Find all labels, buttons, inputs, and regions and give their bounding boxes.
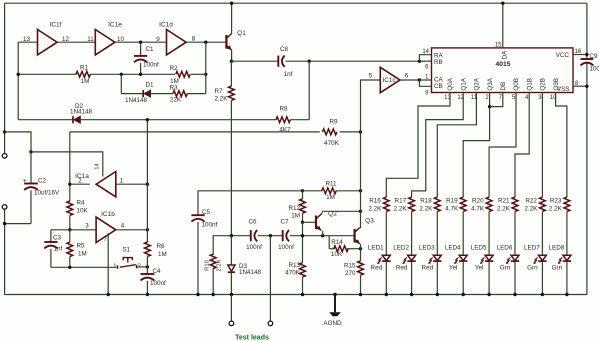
svg-text:IC1a: IC1a bbox=[75, 173, 89, 180]
wire C8 to 4015 RB bbox=[286, 60, 420, 62]
wire R14 right bbox=[347, 248, 360, 250]
wire LED1 to ground bbox=[385, 262, 387, 295]
capacitor C5 bbox=[191, 214, 204, 216]
svg-text:1M: 1M bbox=[81, 78, 90, 85]
svg-text:1N4148: 1N4148 bbox=[125, 97, 148, 104]
wire right rail lower bbox=[586, 63, 588, 295]
LED LED8 Grn bbox=[563, 255, 571, 260]
svg-text:Q1: Q1 bbox=[237, 30, 246, 37]
capacitor C8 bbox=[277, 56, 279, 67]
svg-text:R8: R8 bbox=[279, 106, 288, 113]
wire pin10 Q3B to R23 bbox=[556, 93, 567, 198]
svg-text:DB: DB bbox=[500, 82, 507, 91]
wire row to R11 bbox=[303, 190, 323, 192]
wire RB stub bbox=[419, 60, 431, 62]
wire IC1d to Q1 base bbox=[186, 41, 226, 43]
svg-text:IC1b: IC1b bbox=[101, 211, 115, 218]
node RA RB junction bbox=[418, 60, 421, 63]
wire R7 down to C6 row bbox=[230, 100, 232, 235]
svg-text:DA: DA bbox=[502, 50, 509, 60]
capacitor C1 bbox=[140, 42, 142, 56]
node IC1b output branch bbox=[146, 228, 149, 231]
node R12 top bbox=[301, 189, 304, 192]
node C2 ground branch bbox=[3, 222, 6, 225]
svg-text:R22: R22 bbox=[525, 198, 537, 205]
wire R15 leads bbox=[360, 249, 362, 261]
node IC1c out to CA CB bbox=[418, 78, 421, 81]
wire IC1f input bbox=[18, 41, 37, 43]
wire left lower rail bbox=[4, 209, 6, 294]
wire pin7 DB to Q3A bbox=[490, 93, 503, 107]
LED LED6 Grn bbox=[511, 255, 519, 260]
resistor R16 bbox=[383, 197, 389, 211]
ground AGND symbol bbox=[334, 295, 336, 313]
svg-text:2.2K: 2.2K bbox=[217, 259, 223, 271]
wire input vertical bbox=[17, 42, 19, 120]
wire R8 right bbox=[290, 119, 309, 121]
wire C3-R5 bottom row to S1 bbox=[51, 266, 116, 268]
node Q2 collector on Q3 vertical bbox=[359, 210, 362, 213]
wire LED8 to ground bbox=[566, 262, 568, 295]
wire mid rail R4 to R9 bbox=[70, 131, 320, 133]
resistor R4 bbox=[67, 201, 73, 215]
svg-text:470K: 470K bbox=[324, 140, 340, 147]
wire right rail upper bbox=[586, 3, 588, 59]
svg-text:4: 4 bbox=[121, 222, 125, 229]
svg-text:10uf/16V: 10uf/16V bbox=[34, 189, 60, 196]
resistor R9 bbox=[323, 129, 337, 135]
node IC1a input branch bbox=[146, 183, 149, 186]
svg-text:C1: C1 bbox=[146, 46, 155, 53]
svg-text:R7: R7 bbox=[214, 88, 223, 95]
op-amp IC1c bbox=[380, 67, 400, 92]
LED LED4 Yel bbox=[459, 255, 467, 260]
pin 15 DA stub to VCC rail bbox=[502, 3, 504, 48]
svg-text:2.2K: 2.2K bbox=[497, 205, 511, 212]
node D2 row branch bbox=[146, 118, 149, 121]
wire IC1a output bbox=[70, 183, 90, 185]
svg-text:R12: R12 bbox=[288, 205, 300, 212]
svg-text:LED4: LED4 bbox=[445, 244, 461, 251]
wire supply tap to C2 bbox=[5, 132, 31, 152]
wire pin12 Q1A to R17 bbox=[412, 93, 464, 198]
svg-text:14: 14 bbox=[422, 49, 429, 55]
IC 4015 body bbox=[432, 48, 574, 93]
node R4 bottom IC1b input bbox=[68, 228, 71, 231]
wire R4 top bbox=[69, 132, 71, 201]
node LED4 ground bbox=[462, 293, 465, 296]
svg-text:Yel: Yel bbox=[475, 264, 484, 271]
svg-text:11: 11 bbox=[87, 36, 94, 43]
resistor R13 bbox=[300, 263, 306, 277]
node R1-D1 branch bbox=[120, 73, 123, 76]
terminal circle left bottom bbox=[2, 205, 7, 210]
svg-text:C8: C8 bbox=[280, 46, 289, 53]
svg-text:15: 15 bbox=[495, 43, 502, 49]
resistor R21 bbox=[512, 197, 518, 211]
svg-text:RB: RB bbox=[434, 59, 443, 66]
svg-text:IC1c: IC1c bbox=[383, 77, 396, 84]
resistor R14 bbox=[329, 248, 335, 250]
wire D1 row left bbox=[121, 93, 143, 95]
svg-text:+: + bbox=[23, 177, 27, 184]
svg-text:22K: 22K bbox=[170, 97, 182, 104]
svg-text:2.2K: 2.2K bbox=[549, 205, 563, 212]
svg-text:Red: Red bbox=[396, 264, 408, 271]
node LED7 ground bbox=[541, 293, 544, 296]
svg-text:16: 16 bbox=[575, 49, 582, 55]
wire R14 left lead bbox=[328, 236, 330, 249]
svg-text:C4: C4 bbox=[153, 268, 162, 275]
wire C8 branch down to R8 bbox=[308, 61, 310, 119]
wire R20 to LED5 bbox=[488, 212, 490, 256]
wire pin11 Q2A to R18 bbox=[437, 93, 476, 198]
capacitor C9 bbox=[581, 58, 594, 60]
svg-text:1M: 1M bbox=[291, 212, 300, 219]
svg-text:R17: R17 bbox=[395, 198, 407, 205]
wire S1 pin2 to C4 bbox=[138, 266, 148, 268]
wire R5 leads bbox=[69, 230, 71, 242]
LED LED2 Red bbox=[408, 255, 416, 260]
resistor R22 bbox=[540, 197, 546, 211]
wire C2 bottom to left rail bbox=[5, 223, 31, 225]
svg-text:4.7K: 4.7K bbox=[471, 205, 485, 212]
resistor R20 bbox=[486, 197, 492, 211]
svg-text:LED7: LED7 bbox=[524, 244, 540, 251]
svg-text:R20: R20 bbox=[472, 198, 484, 205]
svg-text:Yel: Yel bbox=[449, 264, 458, 271]
node R9 right on Q3 vertical bbox=[359, 130, 362, 133]
svg-text:100n: 100n bbox=[590, 66, 599, 73]
op-amp IC1d bbox=[167, 30, 187, 55]
wire R10 bottom bbox=[212, 268, 214, 295]
diode D2 bbox=[72, 116, 74, 123]
wire LED2 to ground bbox=[411, 262, 413, 295]
wire pin5 Q0B to R20 bbox=[489, 93, 516, 198]
svg-text:8: 8 bbox=[192, 36, 196, 43]
svg-text:C7: C7 bbox=[280, 219, 289, 226]
node LED2 ground bbox=[410, 293, 413, 296]
node R2 right bbox=[204, 73, 207, 76]
svg-text:R13: R13 bbox=[288, 262, 300, 269]
wire R19 to LED4 bbox=[462, 212, 464, 256]
capacitor C7 bbox=[282, 230, 284, 241]
wire test lead 2 bbox=[269, 236, 271, 321]
node LED6 ground bbox=[513, 293, 516, 296]
svg-text:R10: R10 bbox=[204, 260, 210, 271]
svg-text:5: 5 bbox=[369, 73, 373, 80]
svg-text:1: 1 bbox=[120, 178, 124, 185]
svg-text:R16: R16 bbox=[369, 198, 381, 205]
wire R3 to vertical bbox=[187, 93, 206, 95]
svg-text:R15: R15 bbox=[344, 263, 356, 270]
wire middle column from D2 row bbox=[146, 120, 148, 242]
svg-text:6: 6 bbox=[405, 73, 409, 80]
node R14 on Q3 emitter bbox=[359, 247, 362, 250]
node R10 ground bbox=[212, 293, 215, 296]
capacitor C4 bbox=[146, 267, 148, 274]
svg-text:470K: 470K bbox=[285, 270, 301, 277]
svg-text:C6: C6 bbox=[248, 219, 257, 226]
wire IC1b input row bbox=[51, 229, 96, 231]
wire R16 to LED1 bbox=[385, 212, 387, 256]
node LED8 ground bbox=[565, 293, 568, 296]
wire pin13 Q0A to R16 bbox=[386, 93, 450, 198]
wire pin14 power line bbox=[31, 152, 103, 177]
svg-text:Q0B: Q0B bbox=[513, 78, 520, 91]
node Q3A-DB cascade bbox=[488, 105, 491, 108]
wire C7 to Q3 base bbox=[290, 235, 355, 237]
svg-text:IC1e: IC1e bbox=[108, 22, 122, 29]
capacitor C6 bbox=[250, 230, 252, 241]
node R5 bottom bbox=[68, 266, 71, 269]
op-amp IC1f bbox=[38, 30, 58, 55]
svg-text:4015: 4015 bbox=[495, 61, 510, 68]
wire R13 leads bbox=[302, 222, 304, 262]
wire R12 leads bbox=[302, 191, 304, 199]
svg-text:C5: C5 bbox=[202, 209, 211, 216]
terminal circle left top bbox=[2, 154, 7, 159]
node IC1d output bbox=[204, 41, 207, 44]
wire R2 right bbox=[191, 73, 206, 75]
svg-text:R19: R19 bbox=[446, 198, 458, 205]
capacitor C2 10uf/16V polarized bbox=[30, 152, 32, 184]
svg-text:LED5: LED5 bbox=[471, 244, 487, 251]
svg-text:Q1A: Q1A bbox=[460, 77, 467, 90]
svg-text:LED1: LED1 bbox=[368, 244, 384, 251]
wire IC1d output vertical bbox=[205, 42, 207, 93]
svg-text:R3: R3 bbox=[169, 84, 178, 91]
svg-text:R6: R6 bbox=[157, 243, 166, 250]
svg-text:LED8: LED8 bbox=[549, 244, 565, 251]
svg-text:AGND: AGND bbox=[323, 320, 342, 327]
node C4 ground bbox=[146, 293, 149, 296]
svg-text:Grn: Grn bbox=[527, 264, 538, 271]
wire RA loop bbox=[419, 55, 431, 62]
wire Q3 collector vertical to IC1c input bbox=[361, 80, 381, 228]
svg-text:LED6: LED6 bbox=[497, 244, 513, 251]
svg-text:1M: 1M bbox=[158, 251, 167, 258]
svg-text:S1: S1 bbox=[122, 246, 130, 253]
op-amp IC1b bbox=[96, 217, 116, 242]
resistor R19 bbox=[460, 197, 466, 211]
wire LED5 to ground bbox=[488, 262, 490, 295]
svg-text:2.2K: 2.2K bbox=[368, 205, 382, 212]
node Q2 base tap bbox=[301, 221, 304, 224]
transistor Q1 bbox=[225, 35, 227, 49]
svg-text:R9: R9 bbox=[329, 119, 338, 126]
wire Q1 emitter to R7 bbox=[230, 61, 232, 86]
wire pin2 Q3A to R19 bbox=[463, 93, 489, 198]
node IC1a output bbox=[68, 183, 71, 186]
wire Q3 emitter down bbox=[360, 244, 362, 249]
wire R21 to LED6 bbox=[514, 212, 516, 256]
svg-text:R23: R23 bbox=[550, 198, 562, 205]
node R7 bottom on C6 row bbox=[230, 234, 233, 237]
wire test lead 1 bbox=[230, 295, 232, 322]
svg-text:1N4148: 1N4148 bbox=[70, 109, 93, 116]
svg-text:R18: R18 bbox=[420, 198, 432, 205]
pin 16 VCC stub bbox=[573, 54, 587, 56]
svg-text:LED3: LED3 bbox=[419, 244, 435, 251]
svg-text:Q2A: Q2A bbox=[474, 77, 481, 90]
svg-text:9: 9 bbox=[156, 36, 160, 43]
node LED1 ground bbox=[385, 293, 388, 296]
svg-text:LED2: LED2 bbox=[393, 244, 409, 251]
node D3 ground and test lead 1 bbox=[230, 293, 233, 296]
svg-text:IC1f: IC1f bbox=[50, 22, 62, 29]
node R15 ground bbox=[359, 293, 362, 296]
node R11 right on Q3 vertical bbox=[359, 189, 362, 192]
svg-text:3: 3 bbox=[85, 222, 89, 229]
node R1 left bbox=[17, 73, 20, 76]
svg-text:1nf: 1nf bbox=[54, 246, 63, 253]
svg-text:D1: D1 bbox=[145, 81, 154, 88]
svg-text:2: 2 bbox=[78, 178, 82, 185]
svg-text:4.7K: 4.7K bbox=[445, 205, 459, 212]
resistor R12 bbox=[300, 199, 306, 213]
wire Q2 collector bbox=[321, 211, 360, 214]
resistor R10 bbox=[210, 254, 216, 268]
svg-text:R11: R11 bbox=[325, 180, 337, 187]
svg-text:100nf: 100nf bbox=[202, 221, 218, 228]
svg-text:14: 14 bbox=[94, 163, 100, 170]
op-amp IC1a bbox=[96, 172, 116, 197]
svg-text:Q3A: Q3A bbox=[487, 77, 494, 90]
node IC1b pin7 ground bbox=[107, 293, 110, 296]
node Q1 emitter bbox=[230, 60, 233, 63]
svg-text:IC1d: IC1d bbox=[159, 22, 173, 29]
resistor R5 bbox=[67, 242, 73, 256]
node Q1 collector on rail bbox=[230, 2, 233, 5]
resistor R8 bbox=[276, 117, 290, 123]
wire Q1 emitter to C8 bbox=[231, 60, 278, 62]
svg-text:2.2K: 2.2K bbox=[394, 205, 408, 212]
op-amp IC1e bbox=[95, 30, 115, 55]
wire Q2 base bbox=[303, 221, 317, 223]
wire IC1b pin7 ground bbox=[107, 233, 109, 294]
node C2 top bbox=[29, 150, 32, 153]
wire R17 to LED2 bbox=[411, 212, 413, 256]
node LED3 ground bbox=[436, 293, 439, 296]
resistor R18 bbox=[434, 197, 440, 211]
resistor R3 bbox=[173, 91, 187, 97]
transistor Q2 bbox=[315, 216, 317, 230]
wire R18 to LED3 bbox=[436, 212, 438, 256]
svg-text:1M: 1M bbox=[326, 194, 335, 201]
resistor R11 bbox=[322, 188, 336, 194]
wire IC1c output bbox=[400, 79, 420, 81]
transistor Q3 bbox=[354, 229, 356, 243]
wire LED4 to ground bbox=[462, 262, 464, 295]
svg-text:1: 1 bbox=[113, 263, 116, 269]
wire IC1a input bbox=[116, 183, 148, 185]
wire LED6 to ground bbox=[514, 262, 516, 295]
resistor R1 bbox=[76, 71, 90, 77]
node R13 ground bbox=[301, 293, 304, 296]
wire D2 to R8 bbox=[80, 119, 276, 121]
LED LED3 Red bbox=[433, 255, 441, 260]
svg-text:Q2B: Q2B bbox=[540, 78, 547, 91]
wire C6 row left corner bbox=[213, 236, 251, 255]
svg-text:CB: CB bbox=[434, 83, 443, 90]
svg-text:2.2K: 2.2K bbox=[419, 205, 433, 212]
node LED5 ground bbox=[487, 293, 490, 296]
wire C6 to C7 bbox=[258, 235, 283, 237]
wire R11 right bbox=[336, 190, 361, 192]
svg-text:R4: R4 bbox=[77, 199, 86, 206]
LED LED5 Yel bbox=[485, 255, 493, 260]
svg-text:1nf: 1nf bbox=[284, 71, 293, 78]
wire D1 to R3 bbox=[151, 93, 174, 95]
svg-text:10K: 10K bbox=[331, 251, 343, 258]
svg-text:Grn: Grn bbox=[552, 264, 563, 271]
resistor R6 bbox=[145, 242, 151, 256]
wire IC1f to IC1e bbox=[57, 41, 95, 43]
capacitor C3 bbox=[50, 230, 52, 242]
svg-text:10K: 10K bbox=[77, 207, 89, 214]
wire CB loop bbox=[419, 80, 431, 86]
node Q2 emitter junction bbox=[321, 234, 324, 237]
svg-text:Q1B: Q1B bbox=[526, 78, 533, 91]
svg-text:C9: C9 bbox=[590, 53, 599, 60]
resistor R7 bbox=[229, 86, 235, 100]
svg-text:Red: Red bbox=[371, 264, 383, 271]
node C8 right branch bbox=[308, 60, 311, 63]
resistor R15 bbox=[358, 261, 364, 275]
svg-text:7: 7 bbox=[103, 237, 106, 243]
svg-text:Test leads: Test leads bbox=[235, 335, 269, 341]
svg-text:C2: C2 bbox=[38, 177, 47, 184]
wire R1 to C1 bbox=[90, 73, 175, 75]
wire LED7 to ground bbox=[541, 262, 543, 295]
svg-text:100nf: 100nf bbox=[150, 280, 166, 287]
svg-text:100nf: 100nf bbox=[278, 244, 294, 251]
wire ground bottom rail bbox=[5, 294, 587, 296]
svg-text:2.2K: 2.2K bbox=[524, 205, 538, 212]
LED LED1 Red bbox=[382, 255, 390, 260]
wire pin4 Q1B to R21 bbox=[515, 93, 529, 198]
wire R22 to LED7 bbox=[541, 212, 543, 256]
node C7-R13 junction bbox=[301, 234, 304, 237]
pin 8 VSS stub bbox=[573, 85, 587, 87]
wire left border rail bbox=[4, 3, 6, 153]
svg-text:13: 13 bbox=[23, 36, 30, 43]
svg-text:4K7: 4K7 bbox=[279, 127, 291, 134]
svg-text:2.2K: 2.2K bbox=[215, 96, 229, 103]
svg-text:Q0A: Q0A bbox=[447, 77, 454, 90]
svg-text:Grn: Grn bbox=[500, 264, 511, 271]
svg-text:R1: R1 bbox=[80, 64, 89, 71]
wire pin3 Q2B to R22 bbox=[541, 93, 543, 198]
node C1 bottom bbox=[139, 73, 142, 76]
node supply tap on left border bbox=[3, 130, 6, 133]
svg-text:100nf: 100nf bbox=[246, 244, 262, 251]
resistor R2 bbox=[176, 71, 190, 77]
wire R23 to LED8 bbox=[566, 212, 568, 256]
node C5 ground bbox=[196, 293, 199, 296]
wire Q2 emitter down bbox=[322, 231, 324, 236]
wire R9 right bbox=[340, 131, 361, 133]
svg-text:R5: R5 bbox=[77, 242, 86, 249]
node S1-C4-R6 bbox=[146, 265, 149, 268]
wire IC1b output bbox=[116, 229, 148, 231]
svg-text:Red: Red bbox=[422, 264, 434, 271]
node DA on VCC rail bbox=[501, 2, 504, 5]
wire R1 row left bbox=[18, 73, 76, 75]
wire D2 row left bbox=[18, 119, 73, 121]
diode D1 bbox=[142, 90, 144, 97]
